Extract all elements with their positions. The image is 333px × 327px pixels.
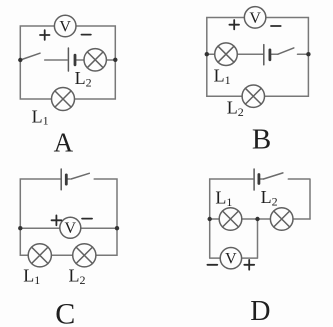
svg-text:L1: L1 bbox=[23, 265, 40, 286]
svg-text:L1: L1 bbox=[214, 65, 231, 86]
svg-text:V: V bbox=[65, 220, 77, 237]
svg-text:L2: L2 bbox=[227, 98, 244, 119]
svg-text:L2: L2 bbox=[69, 266, 86, 287]
svg-text:V: V bbox=[249, 10, 261, 27]
svg-text:B: B bbox=[252, 124, 271, 156]
svg-text:L1: L1 bbox=[215, 188, 232, 209]
svg-text:L1: L1 bbox=[32, 106, 49, 127]
svg-text:L2: L2 bbox=[75, 68, 92, 89]
svg-text:C: C bbox=[55, 297, 75, 327]
svg-text:V: V bbox=[59, 18, 71, 35]
svg-text:L2: L2 bbox=[261, 187, 278, 208]
svg-text:A: A bbox=[54, 128, 74, 158]
svg-text:V: V bbox=[225, 251, 237, 268]
svg-text:D: D bbox=[250, 296, 270, 327]
